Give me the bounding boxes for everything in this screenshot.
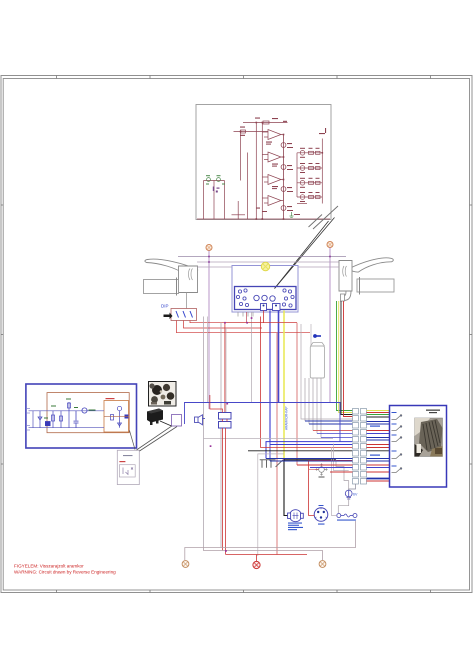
wire blue horizontal run bbox=[185, 403, 341, 442]
switch SW5 bbox=[392, 468, 402, 473]
node wire block bottomright bbox=[232, 201, 246, 219]
sheet frame outer border bbox=[1, 76, 472, 593]
note inner diagram bbox=[119, 465, 135, 477]
wire right-bar bundle red bbox=[344, 301, 353, 417]
CDI photo (component photo) bbox=[149, 382, 177, 407]
frame tick marks bottom bbox=[57, 590, 431, 593]
svg-text:6V: 6V bbox=[353, 493, 358, 497]
lamp cross mark bbox=[207, 246, 211, 250]
LED bus right vertical bbox=[297, 139, 322, 204]
LED row 3: lamp L3 resistors bbox=[297, 181, 322, 186]
pot P1 bbox=[207, 178, 211, 182]
wire rows into column A left bbox=[266, 459, 353, 473]
wire red switchbox drop 2 bbox=[184, 321, 263, 329]
capacitor C6 bbox=[74, 411, 79, 428]
switch SW3 bbox=[392, 437, 402, 442]
wire red brake lamp bbox=[226, 555, 307, 562]
row4 labels bbox=[300, 192, 320, 202]
left body detail bbox=[189, 269, 193, 281]
wire red console drop bbox=[259, 317, 261, 448]
resistor R11 bbox=[52, 411, 55, 428]
ignition coil symbol upper bbox=[219, 413, 232, 420]
wire red coil top link bbox=[210, 395, 223, 413]
resistor R12 bbox=[60, 411, 63, 428]
harness box title bbox=[426, 410, 440, 414]
coil through wires bbox=[223, 419, 228, 555]
U1B label bbox=[272, 164, 278, 167]
ignition switch body bbox=[311, 343, 325, 347]
main connector column A bbox=[353, 409, 359, 485]
callout wedge line upper bbox=[275, 218, 335, 289]
wire gray L-turns to fuse bbox=[334, 444, 349, 471]
brake lamp center bbox=[253, 561, 260, 568]
switch SW1 in harness box bbox=[392, 415, 402, 420]
callout lines from coil terminal box bbox=[137, 426, 173, 450]
node marks block left bbox=[213, 187, 220, 193]
console cluster panel bbox=[235, 287, 297, 310]
wire yellow main bbox=[283, 311, 285, 460]
switch lever 2 bbox=[183, 311, 186, 318]
wire black HT lead bbox=[284, 459, 336, 461]
ignition switch wires down bbox=[305, 378, 321, 438]
DIN rim ticks bbox=[315, 508, 327, 518]
right body detail bbox=[343, 266, 347, 277]
frame tick marks left and right bbox=[1, 205, 472, 464]
sheet frame inner border bbox=[3, 79, 469, 591]
op-amp U1D bbox=[262, 196, 283, 206]
wire red aux bbox=[276, 333, 278, 555]
capacitor C5 (blue body) bbox=[45, 421, 51, 426]
wire bar-console link right bbox=[298, 266, 339, 268]
wire blue console drop bbox=[269, 311, 271, 442]
Q1 label bbox=[287, 143, 293, 148]
op-amp U1A bbox=[262, 130, 283, 140]
gauge circle center-3 bbox=[270, 296, 275, 301]
main connector column B bbox=[361, 409, 367, 485]
turn lamp front-left bbox=[206, 245, 212, 251]
connector block J10 left of sub-schematic bbox=[204, 181, 225, 220]
input label R-in bbox=[240, 127, 245, 136]
block bottom rail wire bbox=[197, 218, 330, 220]
row3 labels bbox=[300, 178, 320, 188]
wire gray right verticals bbox=[301, 324, 353, 419]
DIN top label bbox=[319, 505, 324, 506]
callout wedge line lower bbox=[275, 221, 329, 289]
CDI inner board outline bbox=[47, 393, 129, 433]
headlamp label lines bbox=[288, 523, 303, 531]
U1D label bbox=[256, 208, 267, 213]
horn button arrow bbox=[164, 313, 173, 320]
turn lamp front-right bbox=[327, 242, 333, 248]
wire gray console drop bbox=[251, 312, 253, 403]
ignition coil symbol lower bbox=[219, 422, 232, 429]
transistor Q4 bbox=[281, 206, 286, 211]
CDI border ticks bbox=[27, 409, 30, 431]
hv diode bbox=[118, 411, 122, 428]
indicator circles right bbox=[282, 289, 294, 307]
Q3 label bbox=[287, 187, 293, 192]
transistor Q1 bbox=[281, 143, 286, 148]
console pin socket A bbox=[261, 304, 267, 311]
console outer housing bbox=[232, 266, 298, 313]
wire red magneto bbox=[309, 460, 353, 515]
U1A label bbox=[266, 142, 272, 145]
right grip bbox=[357, 279, 394, 292]
LED row 4: lamp L4 resistors bbox=[297, 195, 322, 200]
left grip bbox=[144, 280, 179, 294]
Q4 label bbox=[287, 206, 293, 211]
junction dot bus bbox=[225, 550, 227, 552]
horn HN1 bbox=[195, 415, 206, 425]
wire cross rail lower bbox=[197, 261, 341, 263]
hv section label bbox=[106, 398, 115, 399]
wire gray main pair bbox=[220, 323, 222, 548]
hv resistor bbox=[111, 415, 114, 421]
diode D5 bbox=[38, 411, 42, 428]
Q5 label bbox=[89, 410, 96, 411]
harness wire labels bbox=[370, 426, 380, 427]
CDI bus bottom bbox=[29, 427, 105, 429]
wire red switchbox drop 1 bbox=[177, 321, 311, 333]
wire red switchbox drop 3 bbox=[190, 321, 297, 323]
supply rail V+ top bbox=[243, 121, 288, 219]
coil terminal box bbox=[172, 415, 182, 427]
wire rows connector to harness box bbox=[367, 411, 390, 482]
right grip flange bbox=[359, 277, 361, 295]
output bus wire bbox=[283, 135, 285, 220]
ignition coil photo (black transformer) bbox=[147, 409, 172, 427]
switch SW2 bbox=[392, 426, 402, 431]
wire gray drop to fuse bbox=[332, 447, 337, 516]
thyristor in hv box bbox=[117, 406, 121, 410]
wire red coil feed bbox=[224, 323, 226, 413]
LED row 2: lamp L2 resistors bbox=[297, 166, 322, 171]
hv cap (blue) bbox=[125, 415, 129, 419]
torn corner marks bbox=[309, 206, 339, 229]
wire lamp left drop bbox=[208, 251, 210, 410]
hv wire bbox=[104, 416, 129, 418]
switch SW4 bbox=[392, 454, 402, 459]
wire cross rail upper bbox=[178, 256, 346, 258]
right handlebar body bbox=[339, 261, 352, 292]
svg-text:DIP: DIP bbox=[161, 304, 169, 309]
wire gray horizontal run bbox=[204, 438, 334, 440]
CDI left rail bbox=[32, 411, 34, 428]
CDI module box (left, blue) bbox=[26, 384, 137, 448]
wire red pin drops bbox=[263, 311, 265, 323]
flywheel label bbox=[319, 477, 325, 478]
DIN connector 3-pin bbox=[314, 508, 328, 522]
note title bbox=[123, 455, 133, 456]
flywheel generator symbol bbox=[316, 464, 327, 475]
frame tick marks top bbox=[57, 76, 431, 79]
headlamp filament bbox=[293, 513, 299, 520]
console lamp top bbox=[261, 262, 269, 270]
left grip flange bbox=[176, 278, 178, 296]
right handlebar lever bbox=[349, 258, 394, 272]
junction dots mid wiring bbox=[210, 317, 285, 461]
pot P2 bbox=[217, 178, 221, 182]
wire gray chassis left bbox=[258, 454, 284, 556]
ignition key icon bbox=[313, 334, 321, 338]
rear harness bus upper bbox=[185, 521, 356, 560]
tail bulb 6V bbox=[345, 490, 352, 499]
resistor R13 bbox=[68, 402, 71, 428]
wire gray bulb chain bbox=[338, 481, 348, 514]
fuse F1 bbox=[337, 514, 357, 518]
gauge circle center-1 bbox=[254, 295, 259, 300]
fuse label bbox=[337, 520, 356, 521]
wire bar-console link left bbox=[198, 266, 233, 268]
junction dots rails bbox=[208, 256, 331, 263]
wire red right vertical bbox=[296, 323, 298, 465]
rear lamp right bbox=[319, 561, 326, 568]
lamp cross mark bbox=[328, 243, 332, 247]
wire red flywheel link bbox=[309, 469, 319, 471]
wire red mid horizontal bbox=[225, 322, 297, 324]
engine photo bbox=[415, 418, 443, 457]
svg-text:WARNING: Circuit drawn by Reve: WARNING: Circuit drawn by Reverse Engine… bbox=[14, 570, 116, 575]
rear harness bus lower bbox=[204, 548, 323, 561]
Q2 label bbox=[287, 165, 293, 170]
op-amp U1B bbox=[262, 152, 283, 162]
svg-text:FIGYELEM: Visszarajzolt aramko: FIGYELEM: Visszarajzolt aramkor bbox=[14, 564, 84, 569]
svg-text:ARAMKOR-KAP: ARAMKOR-KAP bbox=[285, 406, 289, 430]
switch labels bbox=[392, 412, 397, 467]
DIN label bbox=[318, 524, 325, 525]
U1C label bbox=[272, 186, 278, 189]
CDI misc marks bbox=[44, 399, 78, 419]
ground sub-schematic bbox=[290, 212, 294, 217]
left handlebar lever bbox=[145, 259, 198, 273]
wire lamp right drop bbox=[329, 248, 331, 403]
pot labels bbox=[206, 175, 225, 184]
wire right-bar bundle black bbox=[341, 301, 353, 415]
engine harness box (right, blue) bbox=[390, 406, 447, 488]
transistor Q5 bbox=[82, 408, 87, 413]
input wire IN bbox=[234, 130, 269, 219]
callout line from CDI hv box bbox=[130, 431, 136, 450]
supply rail label bbox=[255, 118, 287, 122]
wire blue pair to connectors bbox=[266, 442, 353, 459]
rear lamp left bbox=[182, 561, 189, 568]
junction dots sub-schematic bbox=[240, 122, 323, 220]
row1 labels bbox=[300, 148, 320, 158]
console pin socket B bbox=[273, 304, 281, 311]
note red label bbox=[119, 461, 125, 462]
wire blue thick drop bbox=[278, 311, 280, 403]
transistor Q2 bbox=[281, 165, 286, 170]
op-amp U1C bbox=[262, 175, 283, 185]
right conduit curve bbox=[345, 291, 352, 301]
wire gray main 2 bbox=[207, 317, 209, 403]
row2 labels bbox=[300, 163, 320, 173]
switch lever 1 bbox=[176, 311, 179, 318]
indicator circles left bbox=[236, 289, 248, 307]
switch box left handlebar bbox=[171, 309, 197, 321]
headlamp socket bbox=[288, 510, 304, 522]
transistor Q3 bbox=[281, 187, 286, 192]
wire right-bar bundle green bbox=[337, 301, 353, 411]
bus top label bbox=[319, 128, 326, 134]
CDI bus top bbox=[29, 410, 105, 412]
magneto pickup comb bbox=[260, 460, 283, 468]
wire red horizontal pair bbox=[260, 447, 352, 449]
wire gray main 1 bbox=[203, 317, 205, 548]
CDI hv section box bbox=[104, 401, 129, 433]
gauge circle center-2 bbox=[262, 295, 267, 300]
switch lever 3 bbox=[190, 311, 193, 318]
LED row 1: lamp L1 resistors bbox=[297, 151, 322, 156]
wire right-bar bundle yellow bbox=[339, 301, 353, 413]
ground label bbox=[294, 214, 300, 215]
wire handle to switch bbox=[186, 293, 188, 309]
left handlebar body bbox=[179, 266, 198, 293]
sub-schematic block border bbox=[196, 105, 331, 220]
right conduit end cap bbox=[341, 294, 345, 301]
wire connector bottom drop bbox=[349, 484, 356, 490]
console bottom stubs bbox=[238, 312, 253, 317]
annotation note box bbox=[117, 450, 139, 484]
